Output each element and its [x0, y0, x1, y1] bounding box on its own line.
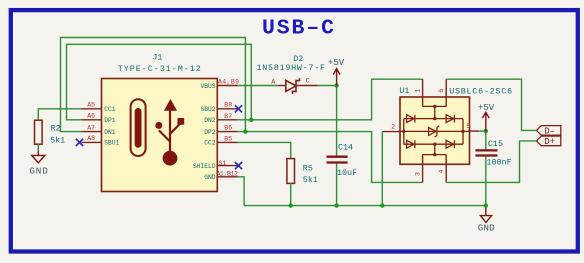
wire D2 cathode to +5V junction [317, 85, 336, 87]
junction DP2 row [243, 129, 247, 133]
svg-text:1N5819HW-7-F: 1N5819HW-7-F [257, 63, 326, 73]
svg-text:B5: B5 [224, 136, 232, 143]
capacitor C14 [327, 157, 348, 163]
capacitor C15 [475, 150, 497, 155]
D2 schottky cathode bar [293, 78, 300, 94]
wire CC1 to R2 [38, 109, 81, 120]
USB icon: trident stem [169, 109, 171, 159]
svg-text:VBUS: VBUS [200, 83, 215, 90]
U1 pin 4 stub [445, 155, 447, 183]
svg-text:R2: R2 [51, 123, 61, 133]
U1 bottom bracket [423, 144, 447, 154]
wire U1 pin5 to +5V node [479, 130, 486, 132]
wire ground rail [244, 205, 486, 207]
U1 junction mid-right [461, 130, 464, 133]
diode D2 schottky symbol [286, 80, 296, 91]
junction DN2 row [249, 118, 253, 122]
svg-text:D+: D+ [544, 137, 555, 147]
USB icon: connector pill outline [131, 99, 146, 156]
junction pin2 drop at rail [380, 203, 384, 207]
svg-text:R5: R5 [303, 163, 313, 173]
resistor R5 [287, 159, 295, 184]
U1 top bracket [423, 106, 447, 118]
wire R2 to GND [37, 144, 39, 150]
junction C14 at rail [334, 203, 338, 207]
connector J1 body [102, 79, 218, 192]
J1 pin stub A4,B9 VBUS [217, 85, 237, 87]
wire C15 to ground rail [485, 157, 487, 206]
U1 pin 5 stub [470, 130, 480, 132]
J1 pin stub B5 CC2 [217, 141, 237, 143]
wire U1 pin4 to D+ tag [446, 141, 536, 183]
ground symbol left [32, 151, 45, 163]
U1 middle rail [400, 130, 470, 132]
svg-text:USB–C: USB–C [262, 17, 334, 41]
U1 diode top-right [446, 115, 454, 123]
J1 pin stub B8 SBU2 [217, 108, 237, 110]
wire DN1 outer loop to DP2 riser [61, 38, 246, 132]
J1 pin stub A1,B12 GND [217, 176, 237, 178]
wire DN2 row to U1 pin1 [238, 79, 423, 120]
svg-text:DN2: DN2 [204, 117, 216, 124]
wire U1 pin2 to ground rail [381, 132, 383, 206]
junction +5V node [334, 83, 338, 87]
U1 top rail [404, 118, 463, 120]
svg-text:5k1: 5k1 [50, 135, 65, 145]
wire CC2 to R5 [238, 142, 291, 158]
svg-text:A8: A8 [87, 135, 95, 142]
U1 pin 3 stub [422, 155, 424, 183]
U1 zener center [429, 126, 440, 137]
wire DP2 row under U1 to pin3 [238, 132, 423, 183]
svg-text:5: 5 [466, 123, 470, 130]
svg-text:C14: C14 [338, 143, 353, 153]
svg-text:B8: B8 [224, 101, 232, 108]
svg-text:U1: U1 [399, 86, 409, 96]
svg-text:A1,B12: A1,B12 [216, 171, 238, 178]
svg-text:5k1: 5k1 [303, 175, 318, 185]
no-connect X on SBU2 [235, 105, 242, 112]
U1 bottom rail [404, 143, 463, 145]
svg-text:D–: D– [544, 127, 555, 137]
svg-text:S1: S1 [219, 160, 227, 167]
USB icon: left branch [159, 130, 170, 141]
no-connect X on SHIELD [235, 162, 242, 169]
svg-text:2: 2 [391, 124, 395, 131]
wire C14 to ground rail [336, 164, 338, 206]
svg-text:GND: GND [29, 165, 48, 176]
svg-text:A: A [271, 78, 275, 85]
J1 pin stub B7 DN2 [217, 119, 237, 121]
J1 pin stub A6 DP1 [82, 119, 102, 121]
wire VBUS to D2 anode [238, 85, 279, 87]
svg-text:4: 4 [438, 170, 445, 174]
U1 pin 2 stub [382, 131, 400, 133]
svg-text:C: C [306, 78, 310, 85]
svg-text:GND: GND [204, 174, 216, 181]
svg-text:6: 6 [438, 89, 445, 93]
U1 diode top-left [407, 115, 415, 123]
U1 diode bottom-left [407, 140, 415, 148]
diode D2 anode stub [278, 85, 286, 87]
U1 body [400, 97, 470, 164]
USB icon: pill inner bar [135, 108, 142, 148]
wire +5V node down to C15 [485, 131, 487, 149]
U1 pin 1 stub [422, 79, 424, 106]
U1 side verticals [404, 119, 463, 145]
U1 diode bottom-right [446, 140, 454, 148]
svg-text:DN1: DN1 [104, 129, 116, 136]
USB icon: trident bottom circle [163, 151, 178, 166]
svg-text:CC1: CC1 [104, 106, 116, 113]
wire +5V junction down to C14 [336, 86, 338, 157]
U1 junction top rail [433, 117, 436, 120]
junction pin5 +5V node [484, 129, 488, 133]
U1 junction bottom bracket [433, 153, 436, 156]
power +5V symbol at U1 [482, 112, 489, 131]
J1 pin stub S1 SHIELD [217, 165, 237, 167]
no-connect X on SBU1 [76, 139, 83, 146]
svg-text:B7: B7 [224, 113, 232, 120]
svg-text:TYPE-C-31-M-12: TYPE-C-31-M-12 [118, 64, 201, 74]
svg-text:+5V: +5V [478, 102, 495, 113]
svg-text:3: 3 [415, 172, 422, 176]
diode D2 cathode stub [296, 85, 317, 87]
svg-text:A7: A7 [87, 124, 95, 131]
svg-text:+5V: +5V [328, 57, 345, 68]
junction R5 at rail [289, 203, 293, 207]
svg-text:CC2: CC2 [204, 140, 216, 147]
svg-text:100nF: 100nF [487, 157, 512, 167]
svg-text:SHIELD: SHIELD [193, 163, 216, 170]
ground symbol right [480, 206, 491, 223]
svg-text:GND: GND [478, 222, 495, 233]
svg-text:USBLC6-2SC6: USBLC6-2SC6 [449, 87, 512, 97]
svg-text:1: 1 [415, 89, 422, 93]
wire R5 to ground rail [290, 183, 292, 205]
svg-text:A4,B9: A4,B9 [218, 79, 239, 86]
J1 pin stub A7 DN1 [82, 131, 102, 133]
U1 junction top bracket [433, 105, 436, 108]
hierarchical label D- [537, 126, 561, 136]
USB icon: trident arrowhead [164, 99, 177, 111]
wire DP1 inner loop to DN2 riser [67, 44, 252, 120]
svg-text:A6: A6 [87, 113, 95, 120]
svg-text:DP1: DP1 [104, 117, 116, 124]
hierarchical label D+ [537, 136, 561, 146]
J1 pin stub A5 CC1 [82, 108, 102, 110]
wire J1 GND pin to rail [238, 177, 245, 206]
svg-text:J1: J1 [152, 52, 162, 62]
svg-text:10uF: 10uF [337, 168, 357, 178]
USB icon: right branch [170, 123, 181, 134]
svg-text:C15: C15 [488, 139, 503, 149]
svg-text:SBU2: SBU2 [200, 106, 215, 113]
USB icon: right branch square [178, 118, 185, 125]
U1 junction mid-left [402, 130, 405, 133]
junction rail end [484, 203, 488, 207]
U1 junction bottom rail [433, 143, 436, 146]
svg-text:SBU1: SBU1 [104, 140, 119, 147]
USB icon: left branch circle [155, 122, 162, 129]
J1 pin stub B6 DP2 [217, 131, 237, 133]
resistor R2 [35, 120, 43, 144]
wire U1 pin6 to D- tag [446, 79, 536, 130]
svg-text:A5: A5 [87, 102, 95, 109]
svg-text:DP2: DP2 [204, 129, 216, 136]
J1 pin stub A8 SBU1 [82, 141, 102, 143]
svg-text:B6: B6 [224, 125, 232, 132]
power +5V symbol at D2 [333, 69, 340, 86]
U1 pin 6 stub [445, 79, 447, 106]
